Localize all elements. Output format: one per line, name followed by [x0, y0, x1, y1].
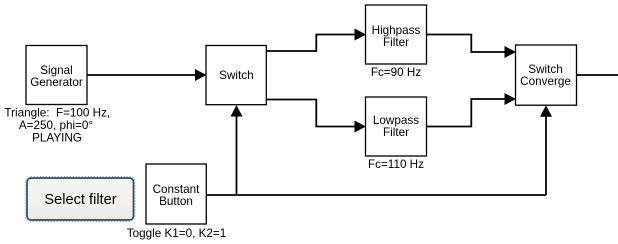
svg-text:Switch: Switch [219, 69, 253, 82]
svg-text:Button: Button [159, 195, 193, 208]
svg-text:Filter: Filter [383, 36, 409, 49]
svg-text:PLAYING: PLAYING [32, 132, 82, 145]
svg-text:Generator: Generator [30, 76, 83, 89]
signal generator block [26, 46, 87, 105]
switch block [206, 46, 266, 105]
svg-text:Triangle: F=100 Hz,: Triangle: F=100 Hz, [4, 107, 110, 120]
svg-text:Converge: Converge [520, 75, 571, 88]
svg-text:Highpass: Highpass [372, 24, 421, 37]
svg-text:Fc=110 Hz: Fc=110 Hz [368, 158, 424, 171]
arrowhead into highpass [355, 29, 367, 41]
arrowhead into switch converge bottom [540, 105, 552, 117]
wire switch bottom output to lowpass [266, 100, 355, 127]
constant button block [146, 164, 206, 224]
svg-text:A=250, phi=0°: A=250, phi=0° [19, 119, 93, 132]
svg-text:Fc=90 Hz: Fc=90 Hz [371, 66, 421, 79]
signal generator label [30, 64, 83, 89]
lowpass filter block [366, 97, 427, 156]
arrowhead into lowpass [355, 121, 367, 133]
wire lowpass output to switch converge bottom-left input [427, 99, 506, 127]
wire switch top output to highpass [266, 35, 355, 52]
wire highpass output to switch converge top input [427, 35, 506, 53]
arrowhead into switch bottom [231, 105, 243, 117]
arrowhead into switch converge bottom-left [505, 93, 517, 105]
signal generator parameter caption [4, 107, 110, 145]
lowpass filter label [373, 114, 419, 139]
svg-text:Select filter: Select filter [44, 192, 116, 208]
select filter push button [26, 177, 136, 222]
wire constant button output running right [206, 194, 546, 196]
arrowhead into switch converge top [505, 46, 517, 58]
wire switch converge output to right edge [577, 74, 618, 76]
highpass filter block [366, 5, 427, 64]
svg-text:Constant: Constant [153, 183, 201, 196]
constant button label [153, 183, 201, 208]
svg-text:Filter: Filter [383, 126, 409, 139]
switch converge label [520, 63, 571, 88]
wire signal generator to switch [87, 74, 196, 76]
arrowhead into switch left [195, 69, 207, 81]
switch converge block [516, 45, 577, 105]
wire branch up into switch converge bottom [545, 116, 547, 195]
wire branch up into switch bottom [236, 116, 238, 196]
svg-text:Toggle K1=0, K2=1: Toggle K1=0, K2=1 [127, 227, 226, 240]
highpass filter label [372, 24, 421, 49]
